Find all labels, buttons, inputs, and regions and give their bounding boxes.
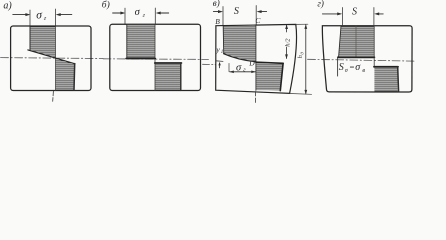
top block left slanted edge <box>339 26 341 57</box>
inner dimension line h/2 upper part with up arrow <box>286 25 288 32</box>
extension tick at x=155.3 (zero axis) <box>154 8 156 24</box>
formula S_sigma = sigma_v <box>339 62 366 74</box>
zero axis line <box>154 24 156 90</box>
dimension arrow right <box>213 11 219 13</box>
axis line C-D <box>255 26 257 91</box>
hatched top stress block <box>223 26 256 62</box>
svg-text:в): в) <box>213 0 220 8</box>
small arrow pointing up at curve <box>219 63 221 68</box>
svg-text:г): г) <box>317 0 324 9</box>
svg-text:г: г <box>44 15 47 22</box>
dimension arrow left (sigma_t width, right side) <box>56 13 61 16</box>
hatched bottom stress block <box>374 67 397 92</box>
zero axis line <box>55 26 57 91</box>
short curve tail at left edge <box>216 60 223 63</box>
faint inner vertical line <box>355 26 357 57</box>
axis tick below bar <box>52 91 55 101</box>
svg-text:S: S <box>339 62 344 73</box>
svg-text:h: h <box>297 55 304 58</box>
dimension arrow right <box>113 12 122 14</box>
svg-text:y: y <box>215 45 220 54</box>
extension tick at x=30 <box>29 10 31 26</box>
axis tick below bar <box>254 92 256 104</box>
svg-text:S: S <box>352 6 357 17</box>
bottom block right bold edge <box>280 63 283 90</box>
svg-text:C: C <box>255 16 261 25</box>
hatched bottom stress block <box>256 62 283 90</box>
svg-text:1: 1 <box>221 50 224 55</box>
svg-text:h/2: h/2 <box>285 38 292 47</box>
top block left edge <box>126 25 128 58</box>
svg-text:в: в <box>362 68 365 74</box>
svg-text:б): б) <box>102 0 110 10</box>
dimension arrow left <box>156 12 161 15</box>
label y1 <box>215 45 223 55</box>
extension tick at x=125 <box>124 8 126 24</box>
stress curve bottom vertical <box>73 64 76 91</box>
top block bottom bold line <box>126 58 155 60</box>
svg-text:σ: σ <box>355 62 361 73</box>
bar cross-section outline (hand drawn, bowed right edge) <box>216 24 297 93</box>
value label sigma_t <box>135 7 146 19</box>
extension tick at x=55.5 (zero axis) <box>55 9 57 26</box>
extension tick at x=223 <box>222 7 224 26</box>
svg-text:σ: σ <box>135 7 141 18</box>
extension tick at x=373.9 (axis) <box>373 8 375 26</box>
svg-text:σ: σ <box>236 62 242 73</box>
dimension arrow left <box>374 12 379 15</box>
svg-text:а): а) <box>3 1 12 12</box>
value label sigma_t <box>36 9 47 22</box>
top block left edge <box>222 26 225 53</box>
svg-text:σ: σ <box>36 9 43 21</box>
hatched top stress block <box>127 25 155 58</box>
bottom block top bold line <box>256 62 283 63</box>
bottom block top bold line <box>155 62 182 64</box>
hatched top stress block <box>339 26 375 57</box>
hatched bottom stress block <box>155 63 181 90</box>
hatched top stress block <box>30 26 55 58</box>
outer dimension line h with arrows <box>305 25 307 94</box>
stress curve to point D <box>224 54 256 62</box>
inner dimension line h/2 lower part with down arrow <box>286 47 288 59</box>
stress curve top vertical <box>29 26 31 50</box>
centerline (dash-dot) <box>1 57 104 60</box>
dimension arrow right (sigma_t width, left side) <box>13 14 26 16</box>
top block bottom bold line <box>338 56 375 58</box>
centerline stub left of figure v <box>203 63 216 65</box>
sigma_t dimension tick <box>228 63 230 71</box>
svg-text:D: D <box>248 58 255 67</box>
centerline (dash-dot) <box>308 59 415 61</box>
rotated label h0 <box>297 52 304 59</box>
extension tick at x=342.5 <box>342 8 344 26</box>
dimension arrow left <box>257 10 262 13</box>
svg-text:г: г <box>243 68 246 74</box>
vertical bar left of formula <box>337 58 339 77</box>
svg-text:B: B <box>215 17 220 26</box>
axis line <box>373 26 375 67</box>
top extension line <box>296 23 308 25</box>
bottom extension line <box>290 93 312 96</box>
svg-text:0: 0 <box>300 52 305 55</box>
bottom block right edge <box>180 63 182 90</box>
extension tick at x=256.2 <box>255 6 257 26</box>
svg-text:г: г <box>143 13 146 19</box>
svg-text:S: S <box>234 6 239 17</box>
stress curve diagonal <box>28 50 75 64</box>
sigma_t dimension line with arrows <box>230 71 256 73</box>
bottom block top bold line <box>374 66 398 68</box>
label sigma_t inside <box>236 62 246 73</box>
svg-text:=: = <box>349 62 355 72</box>
bar cross-section outline (left edge bowed) <box>322 26 412 92</box>
bottom block right edge <box>397 67 400 92</box>
hatched bottom stress block <box>56 58 75 90</box>
bar cross-section outline <box>11 26 91 91</box>
centerline (dash-dot) <box>103 58 209 61</box>
dimension arrow right <box>322 13 337 15</box>
bar cross-section outline <box>110 24 201 90</box>
